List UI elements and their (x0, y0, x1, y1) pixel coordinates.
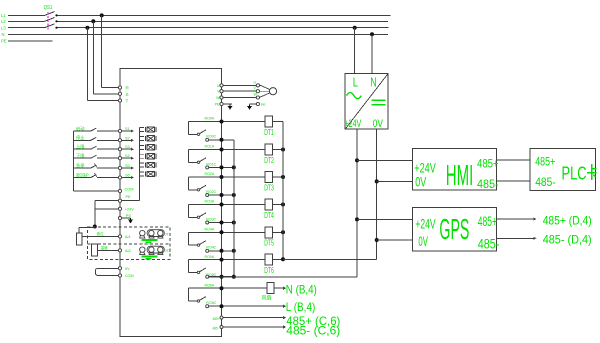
terminal AI1 (118, 235, 121, 238)
svg-text:COM: COM (125, 274, 134, 278)
arrow S2 (131, 139, 134, 142)
jumper 0V-COM (96, 268, 119, 275)
junction RO2C on common bus (232, 193, 236, 197)
label PLC card Chinese glyph (drawn) (587, 164, 596, 180)
solenoid DT6 (265, 254, 272, 265)
wire DT5 to return bus (272, 231, 283, 233)
svg-text:N: N (2, 32, 5, 37)
svg-text:PE: PE (126, 195, 132, 199)
ground arrow motor PE (248, 105, 252, 110)
svg-text:PS: PS (126, 214, 132, 218)
wire input row S5 right (97, 167, 119, 169)
junction RO3C at block edge (220, 221, 224, 225)
wire input row S1 right (97, 130, 119, 132)
wire RO2C row (209, 194, 234, 196)
wire +24V row (95, 208, 119, 210)
wire AI2 row (98, 249, 119, 251)
wire RO4C row (209, 250, 234, 252)
wire L2 right segment (57, 20, 389, 22)
arrow L (283, 305, 286, 308)
junction DT2 on return bus (281, 148, 285, 152)
terminal PE motor (256, 102, 259, 105)
terminal COM2 (118, 274, 121, 277)
junction DT5 on return bus (281, 230, 285, 234)
svg-text:485-: 485- (535, 175, 556, 189)
svg-text:L3: L3 (1, 26, 6, 31)
wire relay 5 drop (188, 260, 190, 273)
junction RO6C at block edge (220, 304, 224, 308)
terminal U motor (256, 84, 259, 87)
wire to COM terminal (74, 190, 119, 192)
switch contact S4 (91, 155, 97, 158)
svg-text:液位: 液位 (97, 231, 105, 236)
wire HMI 485+ to PLC (497, 159, 530, 161)
svg-text:S2: S2 (125, 136, 130, 140)
junction RO0C at block edge (220, 138, 224, 142)
contact pivot relay 2 (197, 189, 199, 191)
wire W to motor (223, 97, 256, 99)
wire L2 left segment (8, 20, 45, 22)
wire S5 into block (122, 167, 133, 169)
terminal S5 (118, 166, 121, 169)
wire PE/+24V drop (94, 201, 96, 227)
wire DT2 to return bus (272, 149, 283, 151)
junction DT4 on return bus (281, 203, 285, 207)
wire input row S5 left (74, 167, 91, 169)
ground arrow inverter PE (228, 105, 232, 110)
relay blade 4 (200, 241, 206, 245)
wire DT4 to return bus (272, 204, 283, 206)
svg-text:RO1A: RO1A (205, 145, 215, 149)
junction common bus at +24V feed (232, 275, 236, 279)
svg-text:QS1: QS1 (44, 5, 53, 11)
junction L3 tap (85, 26, 89, 30)
terminal S4 (118, 157, 121, 160)
wire transmitter A to supply (79, 226, 95, 228)
wire relay 4 stub (189, 244, 198, 246)
arrow N (283, 287, 286, 290)
HMI block (412, 148, 496, 190)
svg-text:L: L (353, 74, 358, 89)
wire relay 0 stub (189, 133, 198, 135)
terminal V inverter (220, 90, 223, 93)
wire RO6A fan row (189, 287, 267, 289)
terminal S6 (118, 176, 121, 179)
motor M circle (269, 88, 276, 95)
wire GPS 485+ out (497, 218, 534, 220)
terminal PE (118, 199, 121, 202)
sensor dashed enclosure (87, 227, 169, 259)
motor M leads (259, 85, 270, 98)
svg-text:485+: 485+ (213, 317, 220, 321)
arrow 485+ (283, 316, 286, 319)
terminal RO0C (206, 138, 209, 141)
svg-text:0V: 0V (125, 267, 130, 271)
wire 485+ out (223, 317, 283, 319)
sensor JT2 (140, 246, 165, 254)
wire input row S4 right (97, 157, 119, 159)
wire PE (8, 40, 52, 42)
wire RO1C row (209, 166, 234, 168)
wire PS to ground (122, 217, 131, 219)
wire L3 right segment (57, 27, 389, 29)
svg-text:温度: 温度 (101, 245, 109, 250)
svg-text:485- (C,6): 485- (C,6) (286, 324, 340, 338)
junction RO5C at block edge (220, 275, 224, 279)
wire relay 4 drop (188, 232, 190, 245)
solenoid DT3 (265, 172, 272, 183)
wire transmitter A up (78, 227, 80, 233)
PSU DC symbol (372, 99, 386, 101)
wire input row S6 left (74, 177, 91, 179)
arrow S4 (131, 157, 134, 160)
relay blade 1 (200, 158, 206, 162)
wire RO6C to L (209, 305, 284, 307)
svg-text:DT6: DT6 (264, 266, 274, 275)
terminal AI2 (118, 249, 121, 252)
terminal PS (118, 217, 121, 220)
terminal 485- (220, 326, 223, 329)
wire PE motor to ground (250, 103, 257, 105)
svg-text:485+: 485+ (477, 156, 499, 170)
wire S4 into block (122, 157, 133, 159)
junction 0V to GPS (375, 238, 379, 242)
switch contact S3 (91, 146, 97, 149)
wire fan to N (274, 287, 283, 289)
opto isolator 3 (140, 145, 156, 150)
QS1 gang link (dashed magenta) (47, 12, 49, 29)
wire input row S4 left (74, 157, 91, 159)
terminal W inverter (220, 96, 223, 99)
wire 485- out (223, 326, 283, 328)
wire solenoid return to 0V (283, 258, 377, 260)
fan body (267, 283, 274, 294)
sensor JT1 (140, 230, 165, 238)
svg-text:S1: S1 (125, 127, 130, 131)
wire RO4A row (189, 231, 266, 233)
svg-text:DT4: DT4 (264, 211, 274, 220)
terminal W motor (256, 96, 259, 99)
terminal RO3C (206, 221, 209, 224)
svg-text:AI2: AI2 (125, 249, 131, 253)
wire opto common bus (139, 127, 141, 200)
junction sensor drop (93, 225, 97, 229)
svg-text:0V: 0V (373, 118, 384, 130)
svg-text:S6: S6 (125, 174, 130, 178)
wire DT1 to return bus (272, 121, 283, 123)
wire N to PSU N (371, 34, 373, 73)
svg-text:S5: S5 (125, 164, 130, 168)
switch contact S2 (91, 137, 97, 140)
svg-text:RO4C: RO4C (206, 246, 216, 250)
svg-text:PLC: PLC (562, 163, 587, 183)
junction return bus at 0V feed (281, 257, 285, 261)
wire relay 2 drop (188, 177, 190, 190)
arrow S5 (131, 166, 134, 169)
svg-text:COM: COM (125, 188, 134, 192)
wire L3 left segment (8, 27, 45, 29)
wire V to motor (223, 90, 256, 92)
GPS block (412, 208, 496, 251)
terminal PE inverter (220, 102, 223, 105)
PSU AC symbol (347, 93, 362, 99)
junction N tap to PSU (370, 32, 374, 36)
arrow S3 (131, 148, 134, 151)
svg-text:W: W (216, 96, 220, 100)
terminal T (118, 99, 121, 102)
junction RO3C on common bus (232, 221, 236, 225)
junction +24V to GPS (355, 217, 359, 221)
junction RO2A at block edge (220, 175, 224, 179)
transmitter B body (92, 244, 98, 256)
terminal S3 (118, 148, 121, 151)
inverter main block U1 outline (120, 69, 222, 337)
contact pivot relay 4 (197, 244, 199, 246)
wire relay 1 stub (189, 161, 198, 163)
wire +24V feed to relay commons (209, 276, 357, 278)
terminal RO1C (206, 166, 209, 169)
relay blade 2 (200, 185, 206, 189)
svg-text:U: U (254, 80, 257, 84)
svg-text:485+: 485+ (478, 213, 497, 229)
wire to S terminal (93, 93, 118, 95)
wire to R terminal (102, 87, 119, 89)
wire RO3A row (189, 204, 266, 206)
wire AI1 row (82, 235, 119, 237)
opto isolator 4 (140, 154, 156, 159)
junction RO2C at block edge (220, 193, 224, 197)
wire RO5C row (209, 276, 234, 278)
terminal S1 (118, 129, 121, 132)
svg-text:RO5A: RO5A (205, 255, 215, 259)
solenoid DT2 (265, 144, 272, 155)
contact pivot relay 0 (197, 133, 199, 135)
junction +24V to HMI (355, 158, 359, 162)
wire L1 right segment (57, 14, 391, 16)
wire S1 into block (122, 130, 133, 132)
wire input row S6 right (97, 177, 119, 179)
wire input row S2 left (74, 139, 91, 141)
junction RO6A at block edge (220, 286, 224, 290)
junction RO1A at block edge (220, 148, 224, 152)
wire input row S3 right (97, 148, 119, 150)
contact pivot relay 6 (197, 300, 199, 302)
terminal RO2C (206, 194, 209, 197)
junction RO1C at block edge (220, 165, 224, 169)
svg-text:HMI: HMI (446, 160, 474, 192)
svg-text:W: W (254, 93, 258, 97)
PLC card block (530, 148, 596, 190)
arrow GPS 485- (534, 237, 537, 240)
terminal 485+ (220, 316, 223, 319)
terminal 0V (118, 267, 121, 270)
svg-text:RO2A: RO2A (205, 172, 215, 176)
junction RO4C at block edge (220, 249, 224, 253)
arrow GPS 485+ (534, 217, 537, 220)
svg-text:RO4A: RO4A (205, 228, 215, 232)
contact pivot relay 1 (197, 161, 199, 163)
wire RO1A row (189, 149, 266, 151)
junction RO0A at block edge (220, 120, 224, 124)
solenoid DT5 (265, 227, 272, 238)
wire relay common bus (233, 140, 235, 277)
terminal S2 (118, 139, 121, 142)
terminal U inverter (220, 84, 223, 87)
svg-text:+24V: +24V (125, 208, 134, 212)
svg-text:S: S (126, 92, 129, 97)
wire relay 0 drop (188, 122, 190, 135)
wire PE inverter to ground (223, 103, 232, 105)
terminal R (118, 86, 121, 89)
relay blade 0 (200, 130, 206, 134)
wire relay 1 drop (188, 150, 190, 163)
terminal S (118, 92, 121, 95)
QS1 contact dot L1 (55, 14, 57, 16)
svg-text:RO0A: RO0A (205, 117, 215, 121)
svg-text:L2: L2 (1, 19, 6, 24)
svg-text:PE: PE (1, 39, 7, 44)
wire RO0C row (209, 139, 234, 141)
wire relay 2 stub (189, 189, 198, 191)
svg-text:485-: 485- (213, 326, 219, 330)
svg-text:GPS: GPS (439, 214, 469, 246)
svg-text:S4: S4 (125, 154, 130, 158)
junction RO5A at block edge (220, 258, 224, 262)
contact pivot relay 3 (197, 216, 199, 218)
svg-text:PE: PE (215, 102, 220, 106)
wire 0V to GPS (377, 239, 413, 241)
svg-text:485-: 485- (477, 177, 499, 191)
wire DT3 to return bus (272, 176, 283, 178)
wire RO2A row (189, 176, 266, 178)
junction 0V to HMI (375, 179, 379, 183)
terminal RO5C (206, 275, 209, 278)
switch contact S6 (91, 175, 97, 178)
wire solenoid return bus (282, 122, 284, 260)
wire DT6 to return bus (272, 259, 283, 261)
svg-text:RO6A: RO6A (205, 284, 215, 288)
ground arrow PS (129, 218, 133, 223)
svg-text:+24V: +24V (344, 118, 361, 130)
relay blade 3 (200, 213, 206, 217)
relay blade 6 (200, 297, 206, 301)
opto isolator 2 (140, 136, 156, 141)
power supply PSU box (345, 73, 388, 129)
svg-text:0V: 0V (418, 233, 428, 249)
wire U to motor (223, 84, 256, 86)
svg-text:U: U (217, 84, 220, 88)
junction RO3A at block edge (220, 203, 224, 207)
QS1 contact dot L3 (55, 27, 57, 29)
solenoid DT4 (265, 199, 272, 210)
svg-text:DT1: DT1 (264, 128, 274, 137)
wire HMI 485- to PLC (497, 180, 530, 182)
wire +24V to GPS (357, 218, 412, 220)
svg-text:R: R (126, 86, 130, 91)
opto isolator 1 (140, 127, 156, 132)
opto isolator 6 (140, 171, 156, 176)
svg-text:DT5: DT5 (264, 239, 274, 248)
wire relay 3 stub (189, 216, 198, 218)
svg-text:485+: 485+ (535, 155, 555, 169)
junction L2 tap (91, 19, 95, 23)
wire PE row left (95, 200, 118, 202)
svg-text:L1: L1 (1, 13, 6, 18)
terminal +24V (118, 207, 121, 210)
wire 0V rail (376, 129, 378, 259)
junction RO4C on common bus (232, 249, 236, 253)
wire input row S3 left (74, 148, 91, 150)
transmitter A body (76, 233, 82, 245)
wire L2 drop (92, 21, 94, 94)
terminal COM (118, 189, 121, 192)
svg-text:风扇: 风扇 (262, 295, 272, 302)
svg-text:AI1: AI1 (125, 235, 131, 239)
opto isolator 5 (140, 162, 156, 167)
svg-text:N: N (370, 74, 376, 89)
svg-text:485- (D,4): 485- (D,4) (543, 233, 592, 247)
svg-text:N (B,4): N (B,4) (286, 282, 317, 296)
wire RO3C row (209, 222, 234, 224)
svg-text:T: T (126, 99, 129, 104)
svg-text:S3: S3 (125, 145, 130, 149)
switch contact S5 (91, 165, 97, 168)
svg-text:485+ (D,4): 485+ (D,4) (543, 214, 592, 228)
wire N (8, 33, 388, 35)
wire L1 left segment (8, 14, 45, 16)
wire input common bus (73, 131, 75, 191)
wire L1 drop (101, 15, 103, 87)
wire RO5A row (189, 259, 266, 261)
junction L1 tap (100, 13, 104, 17)
svg-text:V: V (254, 86, 257, 90)
svg-text:RO3A: RO3A (205, 200, 215, 204)
svg-text:L (B,4): L (B,4) (286, 300, 316, 314)
wire GPS 485- out (497, 237, 534, 239)
wire L3 to PSU L (354, 28, 356, 74)
terminal RO4C (206, 249, 209, 252)
svg-text:485-: 485- (478, 235, 500, 251)
arrow S1 (131, 129, 134, 132)
switch QS1 blades (45, 12, 55, 28)
wire relay 3 drop (188, 205, 190, 218)
arrow 485- (283, 325, 286, 328)
QS1 contact dot L2 (55, 20, 57, 22)
arrow S6 (131, 176, 134, 179)
wire relay 6 drop (188, 288, 190, 301)
junction RO4A at block edge (220, 230, 224, 234)
junction DT3 on return bus (281, 175, 285, 179)
terminal RO6C (206, 305, 209, 308)
relay blade 5 (200, 268, 206, 272)
solenoid DT1 (265, 116, 272, 127)
junction L3 tap to PSU (353, 26, 357, 30)
wire S6 into block (122, 177, 133, 179)
junction RO1C on common bus (232, 165, 236, 169)
wire +24V to HMI (357, 159, 412, 161)
wire +24V rail (356, 129, 358, 277)
terminal V motor (256, 90, 259, 93)
wire 0V to HMI (377, 180, 413, 182)
switch contact S1 (91, 128, 97, 131)
wire S3 into block (122, 148, 133, 150)
svg-text:0V: 0V (415, 174, 426, 190)
wire relay 6 stub (189, 300, 198, 302)
svg-text:DT2: DT2 (264, 156, 274, 165)
wire relay 5 stub (189, 271, 198, 273)
svg-text:DT3: DT3 (264, 183, 274, 192)
contact pivot relay 5 (197, 271, 199, 273)
